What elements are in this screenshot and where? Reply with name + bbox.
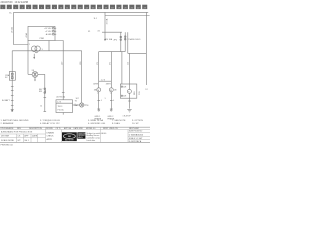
relay contact feed wire [121,52,123,84]
relay bottom tick [128,100,131,102]
battery terminal end [11,109,14,111]
junction tick on TB drop [62,92,65,94]
motor M1 terminal [97,108,100,110]
svg-text:Local date: Local date [87,139,96,142]
wire from controller bottom [48,41,50,51]
relay contact a [121,86,122,87]
svg-text:DENVER: DENVER [78,135,85,137]
svg-text:x: x [75,103,76,105]
svg-text:TB1 3: TB1 3 [58,106,63,108]
relay coil [127,89,131,93]
svg-text:4. RELAY COIL 12V: 4. RELAY COIL 12V [40,122,60,125]
svg-text:X1: X1 [88,31,90,33]
branch mid tick [44,97,47,99]
svg-text:3. TORQUE 8 IN-LB: 3. TORQUE 8 IN-LB [40,120,60,122]
relay coil bottom wire [129,93,131,108]
revision table cell texts [1,130,38,142]
right info column divider [100,127,102,142]
svg-text:B- BATT: B- BATT [2,99,11,102]
wire controller left edge down [27,41,29,75]
title block header divider [0,129,150,131]
lamp L2 wire row [28,73,32,75]
svg-text:115V: 115V [134,90,136,95]
svg-text:115: 115 [128,62,130,65]
ground stub below bus junction [104,32,106,39]
svg-text:B+: B+ [9,13,12,15]
fuse FU2 symbol [124,36,126,38]
svg-text:107: 107 [76,98,79,100]
svg-text:8. DIAG: 8. DIAG [112,122,120,125]
distribution bus right [128,52,147,54]
relay contact b [121,95,122,96]
branch end bar [44,111,47,113]
svg-text:DATE: DATE [32,135,38,138]
company oval logo box [62,132,77,141]
svg-text:10:42 E115B: 10:42 E115B [15,1,29,4]
notes row 2 [1,122,140,125]
TB1 bottom stub [62,113,64,115]
svg-text:2MTR: 2MTR [106,84,112,86]
svg-text:4: 4 [101,100,102,102]
svg-text:SH 1: SH 1 [24,140,29,142]
motor M1 tick [97,99,100,101]
right edge feeder wire [145,12,147,85]
svg-text:SCALE 1:1 SHT: SCALE 1:1 SHT [129,137,144,140]
panel bus corner drop [127,32,129,53]
wire battery lower leg [11,51,13,111]
title block bottom border [0,141,150,143]
drawing number column divider [127,130,129,143]
ground arrow below breaker [33,54,35,57]
svg-text:2. BREAKER: 2. BREAKER [1,122,14,125]
svg-text:CHECK: CHECK [47,136,55,138]
svg-text:APPR: APPR [47,138,53,141]
approvals cell texts [47,131,55,140]
terminal +15VDC [52,27,54,29]
wire lamp branch down [44,74,46,111]
breaker output wire horizontal [12,50,82,52]
svg-text:DRAWN: DRAWN [47,131,55,134]
svg-text:6. GROUND LUG: 6. GROUND LUG [88,123,106,125]
notes row 1 [1,119,144,122]
fuse FU1 drop wire [120,32,122,51]
svg-text:2FU: 2FU [114,40,118,42]
junction tick on left feeder [11,86,14,88]
company square logo box [77,132,85,138]
svg-text:1T1: 1T1 [97,62,99,65]
controller box U1 [28,26,55,40]
motor M2 lower wire [110,92,112,109]
svg-text:1M: 1M [94,90,97,92]
relay K1 feed wire [129,53,131,89]
svg-text:APP: APP [24,135,29,138]
svg-text:1 2 3: 1 2 3 [57,102,61,104]
motor M2 tick [110,99,113,101]
svg-text:1FU 10A: 1FU 10A [105,38,113,41]
svg-text:2M: 2M [114,90,117,92]
svg-text:10. SP: 10. SP [132,123,139,125]
svg-text:COIL: COIL [139,91,141,95]
svg-text:2T1: 2T1 [110,62,112,65]
switch S1 contacts on branch [44,88,46,90]
svg-text:15A SLO-BLO: 15A SLO-BLO [128,38,141,41]
svg-text:A1 TB1 (6): A1 TB1 (6) [57,96,66,99]
fuse F1 box on battery leg [9,72,15,81]
terminal GND [52,33,54,35]
title block frame top [0,126,150,128]
wire controller right to TB vertical [55,41,63,100]
svg-text:1/2: 1/2 [145,89,147,91]
svg-text:SCALE NONE: SCALE NONE [1,139,15,142]
svg-text:5. WIRE 16 GA: 5. WIRE 16 GA [88,119,103,122]
svg-text:1. BATTERY NEG GROUND: 1. BATTERY NEG GROUND [1,119,29,122]
svg-text:7. SEE NOTE: 7. SEE NOTE [112,120,126,122]
svg-text:DR KWH: DR KWH [1,136,10,138]
motor M1 lower wire [98,92,100,109]
svg-text:A RELEASED FOR PRODUCTION: A RELEASED FOR PRODUCTION [1,130,33,133]
pilot lamp L3 [80,103,84,107]
svg-text:+5 VDC: +5 VDC [45,31,52,33]
svg-text:TO: TO [75,101,78,103]
terminal block TB1 [56,100,73,113]
svg-text:1MTR: 1MTR [93,84,99,86]
pilot lamp wires [73,104,80,106]
svg-text:3: 3 [42,49,43,51]
svg-text:4 GA: 4 GA [25,32,28,37]
drawing number texts [129,131,144,143]
svg-text:FU: FU [5,77,8,79]
svg-text:4: 4 [113,100,114,102]
lamp L2 filament line [34,72,36,77]
fuse FU2 drop wire [124,32,126,51]
svg-text:2CR: 2CR [123,96,127,98]
motor M1 branch wire [98,52,100,88]
company address text block [87,132,101,142]
relay K1 enclosure [120,84,137,98]
svg-text:A GND: A GND [46,33,53,36]
svg-text:1L1: 1L1 [94,18,98,20]
svg-text:12: 12 [40,105,42,107]
svg-text:D 304EAU04 A: D 304EAU04 A [129,134,144,137]
circuit breaker CB1 double circle [32,46,37,51]
distribution bus left [99,51,126,53]
svg-text:1 E-STOP: 1 E-STOP [123,116,132,118]
motor M2 branch wire [110,52,112,88]
motor M1 circle [97,88,101,92]
motor M2 circle [109,88,113,92]
svg-text:SIZE FSCM NO: SIZE FSCM NO [129,131,143,133]
breaker squiggle [33,51,38,53]
left feeder ticks [11,91,14,106]
terminal +5VDC [52,30,54,32]
wire B+ left feeder vertical [14,12,29,44]
motor M2 terminal [110,108,113,110]
revision table lower line [0,137,46,139]
svg-text:WT: WT [18,140,22,142]
svg-text:2: 2 [29,44,30,46]
svg-text:16 GA: 16 GA [105,18,108,24]
revision table column dividers [17,127,46,142]
svg-text:1 2 3: 1 2 3 [101,79,105,81]
svg-text:PRINTED 04: PRINTED 04 [1,145,14,147]
svg-text:16 GA: 16 GA [11,27,14,33]
title block header texts [1,127,139,130]
lamp L2 circle [32,72,38,78]
drawing number rows [128,132,150,139]
svg-text:GD40: GD40 [101,133,107,135]
svg-text:E: E [87,105,89,107]
svg-text:X2: X2 [98,31,100,33]
ground stub below lamp L2 [34,77,36,80]
svg-text:5: 5 [105,98,106,100]
wire to lamp vertical [81,51,83,103]
revision table mid line [0,133,46,135]
svg-text:PWR: PWR [40,38,45,40]
panel bus wire [102,31,122,33]
main top bus wire [14,11,149,13]
svg-text:CK: CK [18,136,21,138]
svg-text:1CR: 1CR [123,87,127,89]
svg-text:2004/07/09: 2004/07/09 [1,1,14,4]
svg-text:P10 1A: P10 1A [58,109,65,112]
svg-text:SW: SW [39,91,42,93]
fuse FU1 symbol [120,36,122,38]
right feeder drop from bus [104,12,106,32]
approvals divider [60,130,62,143]
ruler strip of grid reference blocks [0,5,147,10]
relay ground symbol [127,109,131,111]
second top bus wire [105,15,150,17]
svg-text:+15 VDC: +15 VDC [44,28,52,30]
motor tie bar [99,80,112,82]
svg-text:9. OPTION: 9. OPTION [132,120,143,122]
